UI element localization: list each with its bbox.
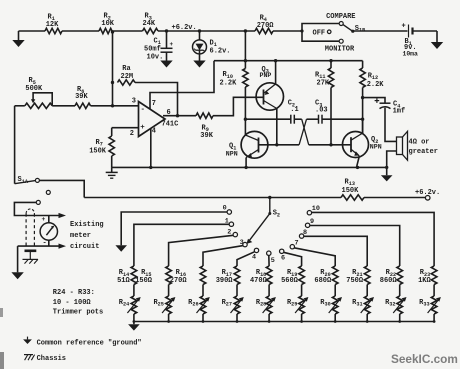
label D1 — [210, 40, 217, 49]
wire C4 branch — [363, 98, 385, 104]
label R9 value 39K — [200, 132, 213, 140]
svg-text:R32: R32 — [385, 299, 395, 308]
node branch 5 bus junction — [268, 320, 271, 323]
switch S2 contact 6 — [280, 249, 284, 253]
wire monitor to meter — [14, 202, 58, 215]
label R23 value — [418, 277, 431, 285]
resistor R22 — [397, 266, 403, 285]
wire Q1 base — [259, 144, 300, 146]
note R24-R33 line1 — [53, 289, 95, 297]
label S1A — [18, 176, 29, 185]
wire Ra feedback — [135, 83, 178, 116]
wire pin4 down — [150, 129, 152, 168]
label position 5 — [271, 257, 275, 265]
label R20 — [320, 269, 330, 278]
capacitor C4 — [380, 103, 391, 108]
svg-text:COMPARE: COMPARE — [326, 13, 355, 21]
wire R3-R4 — [158, 30, 255, 32]
diode D1 zener — [193, 40, 207, 54]
label R24 — [119, 299, 129, 308]
trimmer R26 — [197, 296, 210, 314]
legend chassis symbol — [24, 355, 35, 361]
svg-text:10K: 10K — [101, 20, 114, 28]
trimmer R27 — [231, 296, 244, 314]
label R11 value 27K — [317, 80, 330, 88]
resistor R4 — [255, 28, 273, 33]
svg-text:2: 2 — [130, 130, 134, 138]
label R5 value 500K — [25, 85, 43, 93]
svg-text:4: 4 — [152, 127, 156, 135]
label R18 value — [250, 277, 268, 285]
node R10 top — [244, 29, 247, 32]
label meter minus — [43, 239, 47, 247]
label Q1 type NPN — [226, 150, 238, 157]
wire Q1 emitter — [245, 158, 247, 168]
resistor R20 — [332, 266, 338, 285]
label S1B — [355, 25, 365, 34]
wire R2-R3 — [112, 30, 143, 32]
svg-text:R7: R7 — [96, 139, 103, 148]
wire R32-bus — [399, 314, 401, 322]
label COMPARE — [326, 13, 355, 21]
wire bottom bus — [134, 321, 434, 323]
switch S2 contact 7 — [290, 245, 294, 249]
label R22 — [386, 269, 396, 278]
wire cross down diagonal — [302, 119, 309, 145]
node branch 9 bus junction — [398, 320, 401, 323]
switch S2 contact 1 — [229, 222, 233, 226]
label R12 value 2.2K — [367, 81, 385, 89]
ground (top left common reference) — [12, 31, 24, 47]
svg-text:270Ω: 270Ω — [170, 277, 188, 285]
meter M1 — [40, 223, 57, 240]
svg-text:27K: 27K — [317, 80, 330, 88]
node Ra left junction — [111, 81, 114, 84]
arrow meter bottom — [59, 244, 67, 249]
shield dashes — [26, 209, 34, 246]
wire position 5 to R18 — [268, 255, 270, 266]
label position 8 — [303, 229, 307, 237]
switch S2 contact 10 — [307, 211, 311, 215]
note R24-R33 line2 — [53, 299, 92, 307]
svg-text:39K: 39K — [75, 93, 88, 101]
svg-text:3: 3 — [132, 97, 136, 105]
label R13 value 150K — [342, 187, 360, 195]
wire position 6 to R19 — [284, 252, 302, 266]
node S2 pivot — [268, 196, 271, 199]
wire speaker bottom — [387, 151, 397, 167]
resistor R21 — [364, 266, 370, 285]
label C2 value .1 — [290, 106, 298, 114]
wire R28-bus — [268, 314, 270, 322]
node speaker-rail junction — [385, 166, 388, 169]
resistor R9 — [196, 113, 213, 118]
label opamp plus — [140, 124, 145, 132]
label position 0 — [223, 204, 227, 212]
switch S1B contact OFF — [327, 30, 331, 34]
capacitor C3 — [319, 115, 323, 124]
label position 10 — [312, 205, 320, 213]
switch S1B contact COMPARE — [339, 22, 343, 26]
svg-text:2.2K: 2.2K — [220, 79, 238, 87]
svg-text:150Ω: 150Ω — [135, 277, 153, 285]
resistor R6 — [75, 103, 91, 108]
wire R26-bus — [202, 314, 204, 322]
node feedback-output junction — [176, 114, 179, 117]
svg-text:SeekIC.com: SeekIC.com — [391, 352, 458, 366]
svg-text:NPN: NPN — [226, 150, 238, 157]
label position 1 — [225, 218, 229, 226]
node R11-Q2base junction — [329, 143, 332, 146]
svg-text:+6.2v.: +6.2v. — [172, 24, 197, 32]
svg-text:51Ω: 51Ω — [117, 277, 130, 285]
wire S1B-battery — [353, 30, 408, 32]
svg-text:390Ω: 390Ω — [216, 277, 234, 285]
switch S1A contact off — [46, 190, 50, 194]
switch S2 contact 2 — [233, 232, 237, 236]
capacitor C1 — [161, 48, 173, 60]
wire pin7 supply — [150, 61, 214, 109]
label B1 — [405, 38, 412, 47]
wire left input — [15, 105, 25, 107]
svg-text:6.2v.: 6.2v. — [210, 48, 231, 56]
wire D1 stub top — [199, 31, 201, 40]
label R4 — [260, 15, 267, 24]
switch S2 contact 9 — [305, 223, 309, 227]
label C3 value .03 — [315, 106, 328, 114]
node bus Q3 junction — [274, 59, 277, 62]
node branch 4 bus junction — [236, 320, 239, 323]
node Q1 emitter-rail — [244, 166, 247, 169]
svg-text:R29: R29 — [287, 299, 297, 308]
svg-text:50mf: 50mf — [144, 46, 161, 54]
resistor R18 — [266, 266, 272, 285]
svg-text:PNP: PNP — [260, 72, 272, 79]
label R18 — [256, 269, 266, 278]
trimmer R32 — [393, 296, 406, 314]
label R20 value — [314, 277, 332, 285]
label R21 value — [346, 277, 364, 285]
label R13 — [345, 179, 355, 188]
label meter — [70, 232, 91, 240]
label R10 value 2.2K — [220, 79, 238, 87]
label R3 value 24K — [143, 20, 156, 28]
wire ground rail — [112, 166, 387, 168]
resistor R7 — [109, 136, 114, 156]
label pin 6 — [167, 109, 171, 117]
node branch 3 bus junction — [202, 320, 205, 323]
svg-text:7: 7 — [152, 100, 156, 108]
label R7 value 150K — [89, 148, 107, 156]
wire main to S2 — [84, 197, 341, 199]
label R25 — [153, 299, 163, 308]
label R22 value — [380, 277, 398, 285]
wire cross up diagonal — [299, 119, 306, 145]
trimmer R33 — [428, 296, 441, 314]
wire R11 top — [330, 61, 332, 68]
wire R33-bus — [433, 314, 435, 322]
label R15 — [141, 269, 151, 278]
label opamp minus — [141, 106, 146, 114]
svg-text:NPN: NPN — [370, 144, 382, 151]
svg-text:Ra: Ra — [122, 65, 131, 73]
svg-text:.03: .03 — [315, 106, 328, 114]
label R29 — [287, 299, 297, 308]
wire R5-R6 — [52, 105, 75, 107]
svg-text:R26: R26 — [188, 299, 198, 308]
svg-text:R25: R25 — [153, 299, 163, 308]
switch S1B bracket — [302, 24, 339, 42]
switch S2 contact 0 — [227, 210, 231, 214]
label pin 3 — [132, 97, 136, 105]
svg-text:10v.: 10v. — [147, 54, 164, 62]
label R19 value — [281, 277, 299, 285]
ground (below C1) — [160, 61, 172, 68]
node S1B bracket junction — [300, 29, 303, 32]
resistor R14 — [131, 266, 137, 285]
label R7 — [96, 139, 103, 148]
wire C1 stub — [166, 31, 168, 48]
label pin 7 — [152, 100, 156, 108]
note R24-R33 line3 — [53, 309, 103, 317]
wire R6-opamp pin3 — [91, 105, 139, 107]
resistor R19 — [299, 266, 305, 285]
svg-text:12K: 12K — [46, 21, 59, 29]
label R11 — [315, 71, 325, 80]
label R23 — [420, 269, 430, 278]
wire Q3 emitter — [275, 61, 277, 84]
switch S1A contact monitor — [36, 200, 40, 204]
svg-text:7: 7 — [295, 240, 299, 248]
wire Q2 collector — [362, 119, 364, 134]
label C4 — [393, 101, 400, 110]
label R17 — [222, 269, 232, 278]
resistor R17 — [234, 266, 240, 285]
wire meter ground — [17, 246, 19, 272]
label Q3 type PNP — [260, 72, 272, 79]
node C1 tap — [165, 29, 168, 32]
svg-text:+: + — [402, 23, 406, 31]
label R1 value 12K — [46, 21, 59, 29]
svg-text:4Ω or: 4Ω or — [409, 138, 430, 146]
label +6.2v supply — [172, 24, 197, 32]
switch S2 contact 4 — [254, 248, 258, 252]
wire R23-R33 — [433, 285, 435, 297]
label position 9 — [310, 218, 314, 226]
svg-text:1KΩ: 1KΩ — [418, 277, 431, 285]
wire Q1 collector to C2 — [245, 118, 290, 120]
svg-text:+: + — [140, 124, 145, 132]
battery B1 — [409, 25, 413, 38]
label C1 value 10v — [147, 54, 164, 62]
label 741C — [162, 121, 179, 129]
wire position 8 to R21 — [304, 236, 368, 266]
label Q3 — [262, 66, 269, 75]
resistor R23 — [431, 266, 437, 285]
wire Q3 collector down — [276, 109, 278, 145]
switch S1B contact MONITOR — [339, 39, 343, 43]
node D1 tap — [198, 29, 201, 32]
svg-text:S2: S2 — [273, 210, 280, 219]
trimmer R25 — [162, 296, 175, 314]
node R12-C4 junction — [361, 96, 364, 99]
label B1 value 10ma — [403, 50, 419, 57]
svg-text:750Ω: 750Ω — [346, 277, 364, 285]
wire R10 top — [244, 31, 246, 69]
label B1 value 9v — [404, 44, 417, 52]
wire Q2 emitter — [357, 156, 360, 167]
svg-text:10 - 100Ω: 10 - 100Ω — [53, 299, 92, 307]
label R15 value — [135, 277, 153, 285]
label R19 — [287, 269, 297, 278]
svg-text:500K: 500K — [25, 85, 43, 93]
switch S1A contact compare — [35, 178, 39, 182]
resistor R12 — [360, 68, 365, 88]
svg-text:OFF: OFF — [313, 30, 326, 38]
svg-text:S1A: S1A — [18, 176, 29, 185]
wire C3 to R12 node — [322, 118, 363, 120]
svg-text:4: 4 — [252, 254, 256, 262]
trimmer R28 — [263, 296, 276, 314]
wire position 10 to R23 — [311, 212, 434, 266]
label R14 — [119, 269, 129, 278]
label C1 value 50mf — [144, 46, 161, 54]
resistor R11 — [328, 68, 333, 88]
svg-text:-: - — [141, 106, 146, 114]
terminal +6.2v — [425, 196, 430, 201]
wire cross to C3 — [307, 118, 319, 120]
switch S2 contact 8 — [299, 234, 303, 238]
label pin 4 — [152, 127, 156, 135]
svg-text:R12: R12 — [368, 73, 378, 82]
wire C4 to speaker — [385, 108, 397, 142]
label R21 — [352, 269, 362, 278]
resistor R10 — [243, 69, 248, 88]
wire R17-R27 — [236, 285, 238, 297]
edge smudge 1 — [0, 308, 3, 317]
wire left rail down — [14, 106, 16, 184]
label R27 — [222, 299, 232, 308]
label +6.2v lower — [415, 189, 440, 197]
resistor Ra 22M — [118, 80, 136, 85]
svg-text:150K: 150K — [342, 187, 360, 195]
edge smudge 2 — [0, 352, 4, 369]
wire R24-bus — [133, 314, 135, 322]
svg-text:R13: R13 — [345, 179, 355, 188]
label R4 value 270ohm — [257, 22, 275, 30]
label R12 — [368, 73, 378, 82]
wire meter top stub — [48, 216, 50, 224]
label R28 — [256, 299, 266, 308]
svg-text:Existing: Existing — [70, 221, 104, 229]
node pin3 junction — [111, 104, 114, 107]
label position 2 — [227, 229, 231, 237]
wire output pin6 — [163, 115, 196, 117]
label R33 — [419, 299, 429, 308]
wire R11 bottom — [330, 88, 332, 145]
wire R4-switch — [273, 30, 302, 32]
label R2 — [104, 13, 111, 22]
label OFF — [313, 30, 326, 38]
wire battery-ground — [413, 31, 438, 42]
svg-text:R24 - R33:: R24 - R33: — [53, 289, 95, 297]
svg-text:MONITOR: MONITOR — [325, 45, 355, 53]
svg-text:680Ω: 680Ω — [314, 277, 332, 285]
svg-text:22M: 22M — [121, 73, 134, 81]
resistor R13 — [341, 195, 364, 200]
svg-text:R31: R31 — [352, 299, 362, 308]
speaker LS1 — [397, 131, 408, 160]
wire R30-bus — [334, 314, 336, 322]
label Ra — [122, 65, 131, 73]
label speaker 4ohm — [409, 138, 430, 146]
wire position 3 to R16 — [203, 246, 243, 266]
label Q2 type NPN — [370, 144, 382, 151]
wire R7 stub bottom — [111, 156, 113, 167]
wire position 7 to R20 — [294, 248, 335, 266]
wire R12 top — [362, 61, 364, 68]
label R9 — [202, 124, 209, 133]
label C4 plus — [375, 98, 380, 103]
label R16 value — [170, 277, 188, 285]
svg-text:39K: 39K — [200, 132, 213, 140]
wire R21-R31 — [366, 285, 368, 297]
wire R12 bottom — [362, 88, 364, 135]
wire position 2 to R15 — [169, 235, 234, 266]
wire R19-R29 — [301, 285, 303, 297]
wire R9 to Q3 base — [213, 97, 264, 115]
switch S1A arm — [15, 181, 36, 184]
wire R18-R28 — [268, 285, 270, 297]
ground (meter) — [11, 272, 23, 279]
wire R13 to terminal — [364, 197, 425, 199]
legend chassis text — [37, 355, 66, 363]
svg-text:circuit: circuit — [70, 243, 99, 251]
svg-text:R28: R28 — [256, 299, 266, 308]
node bus R11 junction — [329, 59, 332, 62]
node branch 2 bus junction — [167, 320, 170, 323]
watermark SeekIC.com — [391, 352, 458, 366]
label B1 plus — [402, 23, 406, 31]
wire R25-bus — [168, 314, 170, 322]
svg-text:741C: 741C — [162, 121, 179, 129]
wire meter bottom stub — [48, 240, 50, 246]
svg-text:+: + — [170, 41, 174, 48]
svg-text:greater: greater — [409, 148, 438, 156]
wire cross to Q2 base — [309, 144, 343, 146]
resistor R1 — [45, 28, 62, 33]
arrow meter top — [59, 213, 67, 218]
node C3-R12 junction — [361, 118, 364, 121]
svg-text:+6.2v.: +6.2v. — [415, 189, 440, 197]
label meter plus — [42, 216, 46, 223]
wire R15-R25 — [168, 285, 170, 297]
ground (position 0) — [115, 245, 127, 251]
label position 3 — [240, 239, 244, 247]
label R1 — [48, 13, 55, 22]
label Existing — [70, 221, 104, 229]
label R6 — [77, 86, 84, 95]
wire R22-R32 — [399, 285, 401, 297]
label C2 — [288, 100, 295, 109]
wire position 4 to R17 — [237, 252, 255, 266]
wire top rail segment — [19, 30, 46, 32]
label R2 value 10K — [101, 20, 114, 28]
resistor R3 — [143, 28, 159, 33]
switch S2 contact 5 — [267, 251, 271, 255]
ground (emitter rail right) — [381, 167, 393, 181]
svg-text:470Ω: 470Ω — [250, 277, 268, 285]
